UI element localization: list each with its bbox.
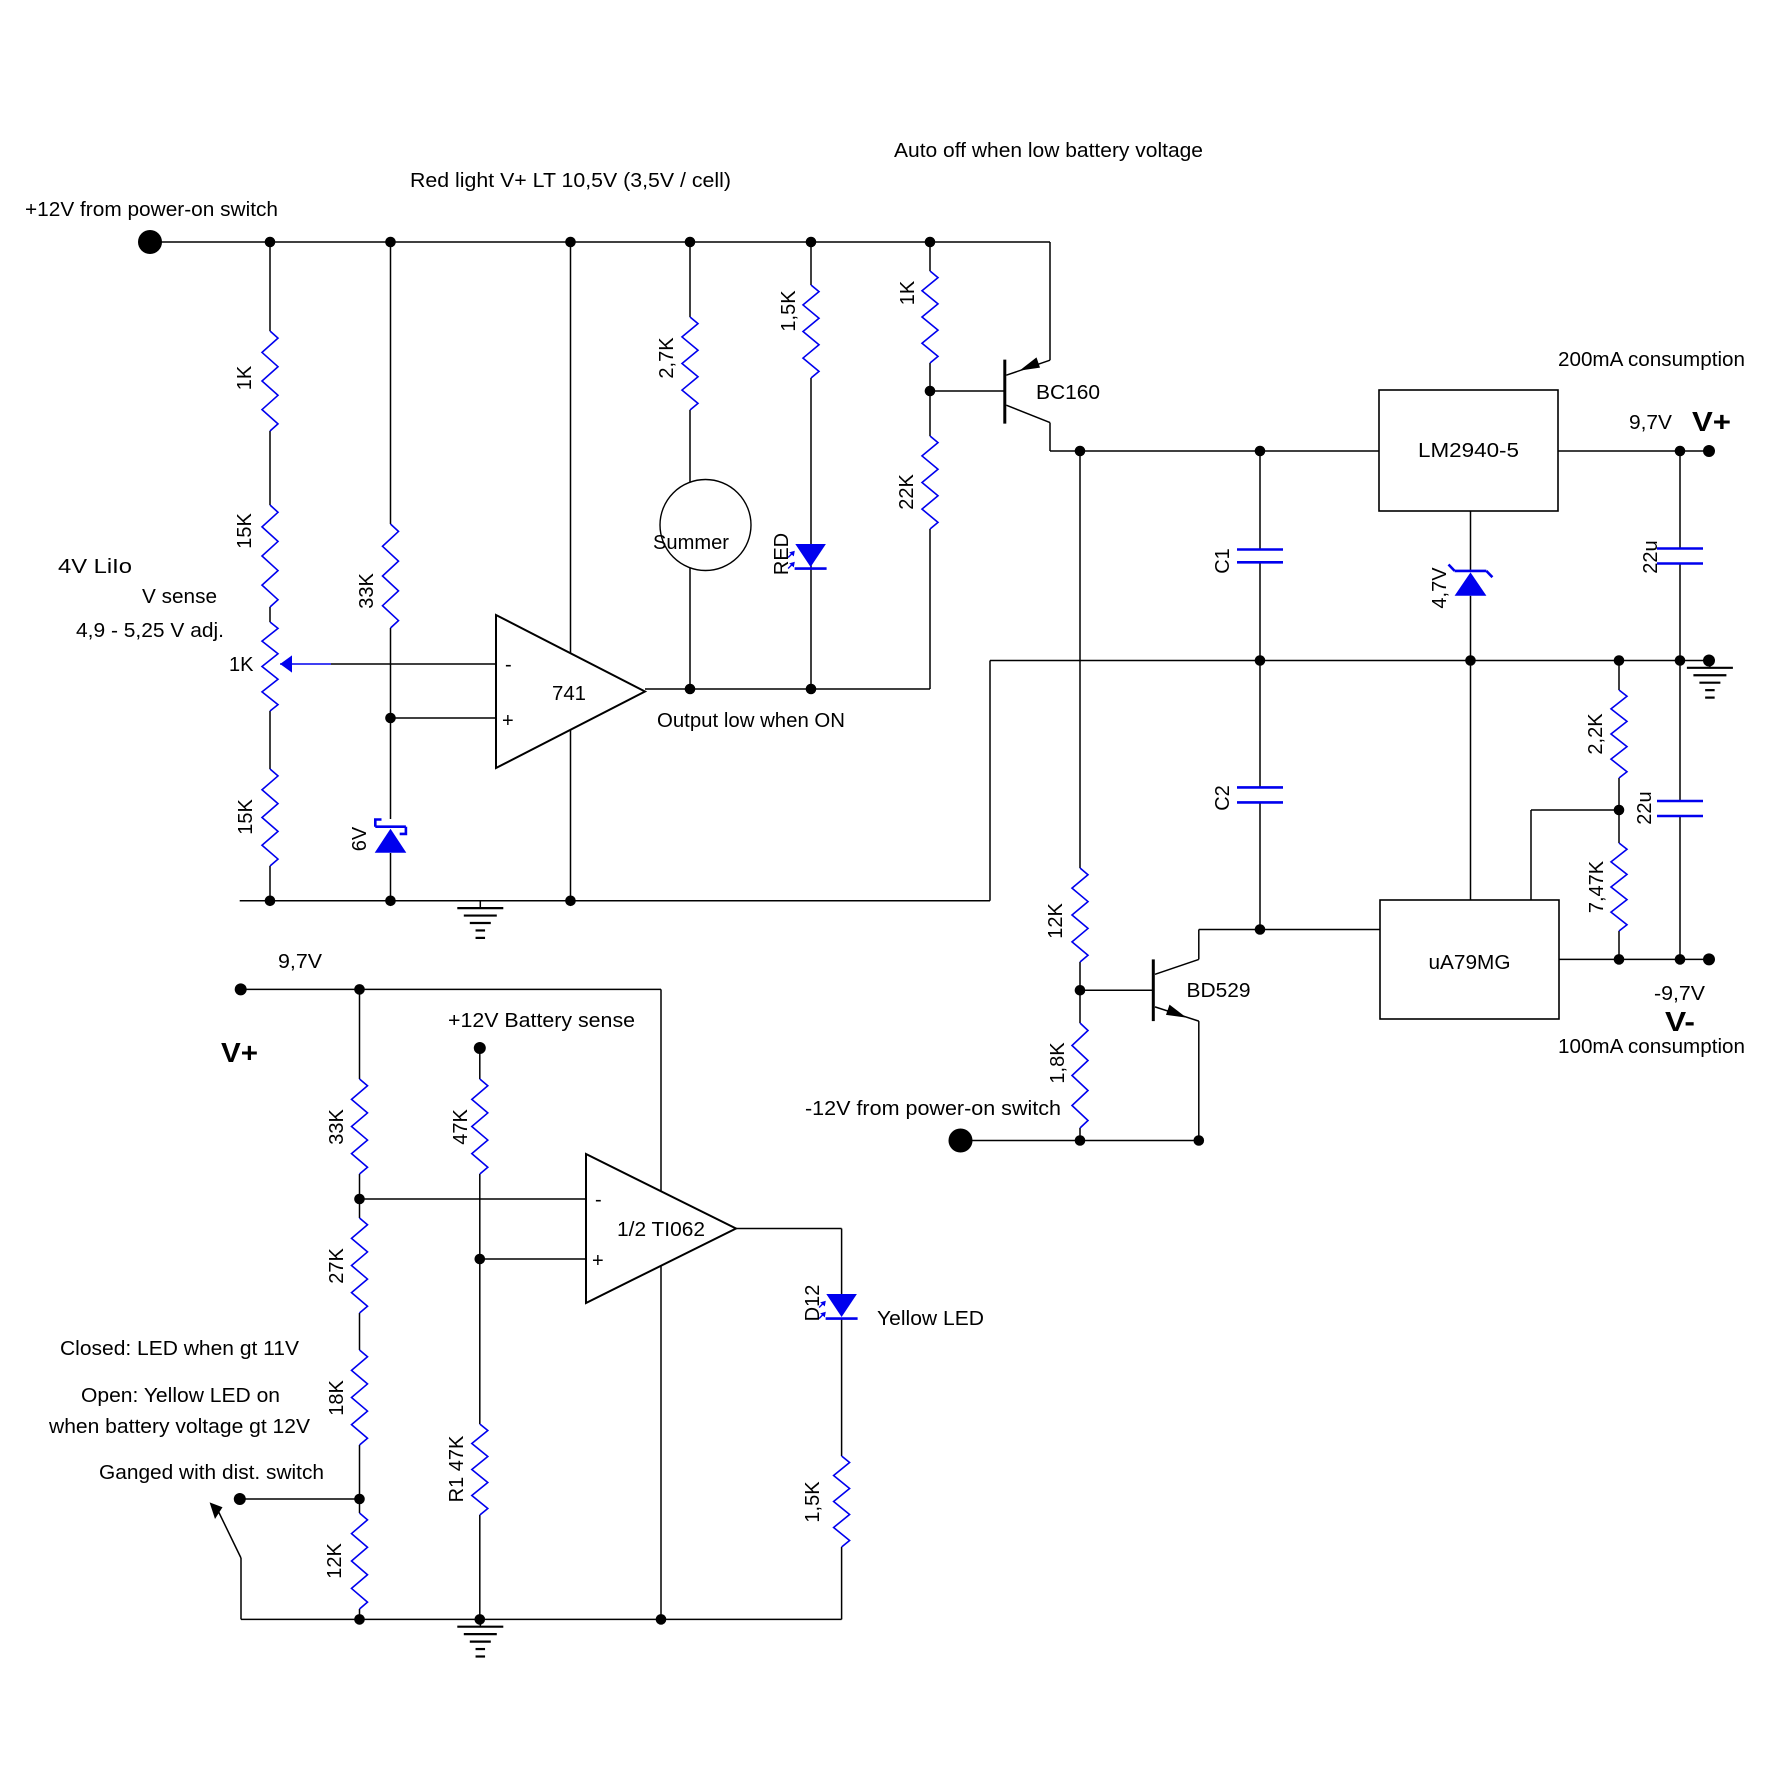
wire: switch common riser — [240, 1558, 242, 1619]
svg-text:100mA consumption: 100mA consumption — [1558, 1036, 1745, 1058]
zener diode 6V — [349, 820, 406, 853]
resistor 7,47K (V- divider) — [1586, 843, 1627, 931]
svg-text:9,7V: 9,7V — [1629, 412, 1673, 434]
svg-text:27K: 27K — [326, 1248, 348, 1284]
terminal: dist. switch contact — [234, 1493, 246, 1505]
svg-text:1,5K: 1,5K — [802, 1481, 824, 1523]
junction: TI062 minus node — [354, 1194, 365, 1205]
wire: 2,2K / 7,47K column x=1619 — [1618, 661, 1620, 960]
svg-text:V sense: V sense — [142, 586, 217, 608]
op-amp U1 741 — [496, 615, 645, 768]
junction: V+ / 22u — [1675, 446, 1686, 457]
terminal: V- output -9,7V — [1703, 953, 1715, 965]
svg-text:+: + — [502, 710, 514, 732]
svg-text:6V: 6V — [349, 826, 371, 851]
junction: top rail / 741 supply — [565, 237, 576, 248]
terminal: +12V from power-on switch — [138, 230, 162, 254]
svg-text:Auto off when low battery volt: Auto off when low battery voltage — [894, 140, 1203, 162]
resistor 22K (base pulldown) — [896, 436, 938, 529]
junction: 741 output / RED LED — [806, 684, 817, 695]
transistor Q BD529 (NPN) — [1153, 959, 1199, 1021]
wire: 22u top column x=1680 — [1679, 451, 1681, 661]
label: -9,7V — [1654, 983, 1706, 1005]
node V+ (lower left) — [221, 1037, 258, 1068]
junction: ground / 2,2K — [1614, 655, 1625, 666]
label: Yellow LED — [877, 1308, 984, 1330]
junction: top rail / 33K — [385, 237, 396, 248]
transistor Q BC160 (PNP) — [1005, 357, 1050, 423]
svg-text:C2: C2 — [1212, 785, 1234, 811]
potentiometer 1K wiper arrow — [229, 622, 292, 711]
wire: BD529 emitter drop — [1198, 1021, 1200, 1140]
svg-text:Red light V+ LT 10,5V (3,5V /: Red light V+ LT 10,5V (3,5V / cell) — [410, 170, 731, 192]
svg-text:2,2K: 2,2K — [1585, 713, 1607, 755]
buzzer Summer — [653, 480, 751, 571]
wire: -12V bottom rail — [961, 1140, 1201, 1142]
wire: BD529 collector to uA79MG — [1199, 929, 1380, 931]
resistor 27K (lower divider) — [326, 1218, 368, 1313]
svg-text:4V LiIo: 4V LiIo — [58, 556, 132, 578]
junction: bottom ground / TI062 supply — [656, 1614, 667, 1625]
junction: top rail / 1,5K — [806, 237, 817, 248]
wire: uA79MG output to V- — [1559, 958, 1709, 960]
ground (lower circuit) — [457, 1619, 503, 1656]
label: 4V LiIo — [58, 556, 132, 578]
label: Output low when ON — [657, 710, 845, 732]
wire: C1 column x=1260 — [1259, 451, 1261, 661]
label: 9,7V (V+ rail) — [1629, 412, 1673, 434]
wire: switch contact stub — [240, 1498, 360, 1500]
junction: TI062 plus node — [475, 1254, 486, 1265]
capacitor C2 — [1212, 785, 1283, 811]
svg-text:1,8K: 1,8K — [1047, 1042, 1069, 1084]
junction: ground / zener 4,7V — [1465, 655, 1476, 666]
svg-text:15K: 15K — [234, 513, 256, 549]
junction: bottom ground / 12K — [354, 1614, 365, 1625]
svg-text:33K: 33K — [356, 573, 378, 609]
svg-text:+12V Battery sense: +12V Battery sense — [448, 1010, 635, 1032]
svg-text:V+: V+ — [1692, 406, 1731, 437]
wire: battery sense column x=479.8 — [479, 1048, 481, 1619]
svg-text:D12: D12 — [802, 1285, 824, 1322]
svg-text:when battery voltage gt 12V: when battery voltage gt 12V — [48, 1416, 311, 1438]
junction: C2 / BD529 collector — [1255, 924, 1266, 935]
junction: V- / 7,47K — [1614, 954, 1625, 965]
node V+ (top right) — [1692, 406, 1731, 437]
label: Auto off note — [894, 140, 1203, 162]
resistor 1,8K (BD529 base pulldown) — [1047, 1023, 1088, 1128]
wire: left ground rail — [240, 900, 990, 902]
svg-text:C1: C1 — [1212, 548, 1234, 574]
svg-text:4,7V: 4,7V — [1429, 567, 1451, 609]
svg-text:1K: 1K — [234, 365, 256, 390]
wire: lower 9,7V rail — [241, 988, 661, 990]
resistor 47K (battery sense) — [450, 1079, 488, 1174]
junction: BD529 base node — [1075, 985, 1086, 996]
junction: bottom ground / R1 — [475, 1614, 486, 1625]
resistor 2,2K (V- divider) — [1585, 690, 1627, 778]
wire: BD529 collector riser — [1198, 930, 1200, 960]
resistor R1 47K — [446, 1424, 488, 1515]
resistor 12K (lower divider) — [324, 1513, 368, 1609]
svg-text:Open: Yellow LED on: Open: Yellow LED on — [81, 1385, 280, 1407]
terminal: V+ output 9,7V — [1703, 445, 1715, 457]
resistor 1K (top of divider) — [234, 331, 278, 431]
svg-text:LM2940-5: LM2940-5 — [1418, 440, 1519, 462]
junction: top rail / 1K — [925, 237, 936, 248]
label: Closed: LED when gt 11V — [60, 1338, 300, 1360]
svg-text:+: + — [592, 1250, 604, 1272]
wire: BC160 collector to LM2940 input — [1050, 423, 1379, 451]
zener diode 4,7V — [1429, 565, 1492, 609]
capacitor C1 — [1212, 548, 1283, 574]
resistor 15K (upper) — [234, 505, 278, 607]
svg-text:18K: 18K — [326, 1380, 348, 1416]
svg-text:-12V from power-on switch: -12V from power-on switch — [805, 1098, 1061, 1120]
svg-text:15K: 15K — [235, 799, 257, 835]
resistor 1,5K (RED LED) — [778, 285, 819, 378]
svg-text:200mA consumption: 200mA consumption — [1558, 349, 1745, 371]
switch lever (ganged with dist. switch) — [210, 1502, 241, 1558]
junction: BC160 base node — [925, 386, 936, 397]
svg-text:1K: 1K — [229, 654, 254, 676]
wire: 741 output rail — [645, 688, 930, 690]
junction: top rail / 2,7K — [685, 237, 696, 248]
resistor 18K (lower divider) — [326, 1350, 368, 1445]
wire: left divider column x=270 — [269, 242, 271, 901]
resistor 15K (lower) — [235, 769, 278, 866]
terminal: lower 9,7V rail — [235, 983, 247, 995]
svg-text:BD529: BD529 — [1187, 980, 1251, 1002]
wire: 1K/22K column x=930 — [930, 242, 1005, 689]
wire: node to uA79MG top pin — [1531, 810, 1619, 900]
svg-text:V-: V- — [1665, 1006, 1695, 1037]
wire: 22u lower column x=1680 — [1679, 661, 1681, 960]
label: Open: Yellow LED on — [81, 1385, 280, 1407]
svg-text:22u: 22u — [1640, 540, 1662, 573]
svg-text:12K: 12K — [324, 1543, 346, 1579]
junction: -12V rail / BD529 emitter — [1194, 1135, 1205, 1146]
terminal: -12V from power-on switch — [949, 1129, 973, 1153]
capacitor 22u (V- filter) — [1634, 791, 1703, 824]
label: +12V Battery sense — [448, 1010, 635, 1032]
resistor 33K (comparator ref) — [356, 524, 399, 628]
svg-text:47K: 47K — [450, 1109, 472, 1145]
svg-text:Ganged with dist. switch: Ganged with dist. switch — [99, 1462, 324, 1484]
svg-text:741: 741 — [552, 683, 586, 705]
junction: V- / 22u lower — [1675, 954, 1686, 965]
terminal: +12V battery sense — [474, 1042, 486, 1054]
wire: 4,7V zener column x=1470.5 — [1470, 511, 1472, 900]
svg-text:22u: 22u — [1634, 791, 1656, 824]
wire: 33K/zener column x=390.5 — [390, 242, 392, 901]
regulator LM2940-5 — [1379, 390, 1558, 511]
label: BD529 — [1187, 980, 1251, 1002]
ground (right, main) — [1687, 661, 1733, 698]
svg-text:1/2 TI062: 1/2 TI062 — [617, 1219, 705, 1241]
label: Red light note — [410, 170, 731, 192]
node V- (right) — [1665, 1006, 1695, 1037]
svg-text:1K: 1K — [897, 280, 919, 305]
junction: 741 output / Summer — [685, 684, 696, 695]
LED RED — [771, 533, 827, 575]
wire: BC160 emitter riser — [1049, 242, 1051, 360]
op-amp U2 1/2 TI062 — [586, 1154, 736, 1303]
svg-text:R1 47K: R1 47K — [446, 1435, 468, 1502]
resistor 33K (lower divider) — [326, 1079, 368, 1174]
label: when battery voltage gt 12V — [48, 1416, 311, 1438]
resistor 12K (BD529 base) — [1045, 868, 1088, 962]
svg-text:22K: 22K — [896, 474, 918, 510]
wire: pot wiper to 741 minus input — [280, 663, 496, 665]
svg-text:12K: 12K — [1045, 903, 1067, 939]
junction: switch contact / divider — [354, 1494, 365, 1505]
svg-text:uA79MG: uA79MG — [1429, 952, 1511, 974]
junction: left ground / divider — [265, 896, 276, 907]
wire: 12K column x=1080 — [1080, 451, 1153, 1141]
capacitor 22u (V+ filter) — [1640, 540, 1703, 573]
svg-text:Output low when ON: Output low when ON — [657, 710, 845, 732]
wire: 47K tap to TI062 plus input — [480, 1258, 586, 1260]
junction: 741 plus node — [385, 713, 396, 724]
svg-text:7,47K: 7,47K — [1586, 860, 1608, 913]
svg-text:RED: RED — [771, 533, 793, 575]
label: 9,7V (lower rail) — [278, 951, 323, 973]
svg-text:V+: V+ — [221, 1037, 258, 1068]
junction: LM2940 input / C1 — [1255, 446, 1266, 457]
label: V sense — [142, 586, 217, 608]
wire: divider tap to TI062 minus input — [360, 1198, 587, 1200]
terminal: ground right — [1703, 655, 1715, 667]
junction: lower rail / 33K — [354, 984, 365, 995]
wire: ground rail riser — [989, 661, 991, 901]
label: +12V from power-on switch — [25, 199, 278, 221]
junction: LM2940 input node — [1075, 446, 1086, 457]
wire: right ground rail — [990, 660, 1709, 662]
junction: left ground / zener 6V — [385, 896, 396, 907]
junction: -12V rail / 1,8K — [1075, 1135, 1086, 1146]
label: -12V from power-on switch — [805, 1098, 1061, 1120]
wire: 2,7K / Summer column x=690 — [689, 242, 691, 689]
wire: D12 to 1,5K to ground — [841, 1319, 843, 1619]
svg-text:Summer: Summer — [653, 532, 729, 554]
svg-text:2,7K: 2,7K — [656, 337, 678, 379]
wire: C2 column x=1260 — [1259, 661, 1261, 930]
resistor 1K (BC160 base) — [897, 271, 938, 363]
label: Ganged with dist. switch — [99, 1462, 324, 1484]
svg-text:33K: 33K — [326, 1109, 348, 1145]
svg-text:9,7V: 9,7V — [278, 951, 323, 973]
wire: TI062 output to D12 — [736, 1229, 842, 1295]
wire: 33K node to 741 plus input — [391, 717, 497, 719]
label: 100mA consumption — [1558, 1036, 1745, 1058]
label: 200mA consumption — [1558, 349, 1745, 371]
wire: 1,5K / RED LED column x=811 — [810, 242, 812, 689]
junction: 2,2K / 7,47K / uA79MG adj — [1614, 805, 1625, 816]
wire: LM2940 output to V+ — [1558, 450, 1709, 452]
svg-text:-9,7V: -9,7V — [1654, 983, 1706, 1005]
junction: left ground / 741 supply — [565, 896, 576, 907]
resistor 2,7K (summer) — [656, 317, 698, 410]
svg-text:-: - — [505, 654, 512, 676]
resistor 1,5K (yellow LED) — [802, 1456, 850, 1547]
wire: TI062 V-supply line — [660, 989, 662, 1619]
junction: top rail / left divider — [265, 237, 276, 248]
junction: ground / 22u lower — [1675, 655, 1686, 666]
svg-text:1,5K: 1,5K — [778, 290, 800, 332]
label: 4,9 - 5,25 V adj. — [76, 620, 224, 642]
wire: 741 V-supply line — [570, 242, 572, 901]
svg-text:Closed: LED when gt 11V: Closed: LED when gt 11V — [60, 1338, 300, 1360]
LED D12 (yellow) — [802, 1285, 858, 1322]
svg-text:+12V from power-on switch: +12V from power-on switch — [25, 199, 278, 221]
ground (741 circuit) — [457, 901, 503, 938]
label: BC160 — [1036, 382, 1100, 404]
regulator uA79MG — [1380, 900, 1559, 1019]
svg-text:-: - — [595, 1189, 602, 1211]
svg-text:Yellow LED: Yellow LED — [877, 1308, 984, 1330]
wire: +12V top rail — [150, 241, 1050, 243]
wire: bottom ground rail — [241, 1618, 842, 1620]
svg-text:4,9 - 5,25 V adj.: 4,9 - 5,25 V adj. — [76, 620, 224, 642]
junction: ground / C1 — [1255, 655, 1266, 666]
wire: lower 33K divider column x=359.5 — [359, 989, 361, 1619]
svg-text:BC160: BC160 — [1036, 382, 1100, 404]
